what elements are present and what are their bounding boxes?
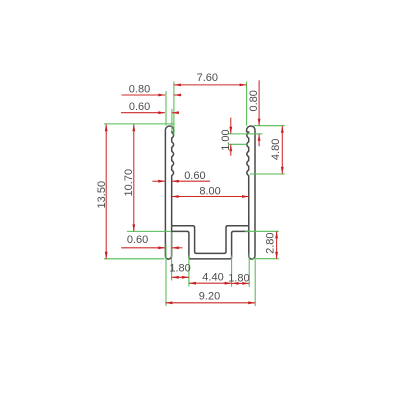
dimension 1.00 arrows: [229, 127, 232, 134]
dimension 7.60 line: [174, 84, 247, 86]
svg-text:1.80: 1.80: [228, 272, 249, 284]
svg-text:2.80: 2.80: [264, 232, 276, 253]
extension line left inner vertical bottom (1.80L left): [171, 232, 173, 281]
svg-text:0.60: 0.60: [127, 234, 148, 246]
dimension 13.50 arrows: [105, 124, 108, 131]
dimension 1.80 left line: [172, 276, 189, 278]
dimension 1.80 right arrows: [232, 282, 239, 285]
dimension 10.70 line: [133, 124, 135, 231]
svg-text:1.00: 1.00: [220, 129, 232, 150]
svg-text:4.80: 4.80: [270, 139, 282, 160]
dimension 1.80 left arrows: [172, 276, 179, 279]
extension line bottom right horizontal (2.80 bottom): [251, 258, 278, 260]
dimension 0.60 top-left line: [121, 112, 165, 114]
svg-text:0.60: 0.60: [184, 170, 205, 182]
extension line shelf right horizontal (2.80 top): [245, 230, 279, 232]
extension line rib left vertical (1.80L right / 4.40 left): [188, 256, 190, 287]
dimension 1.00 line: [230, 118, 232, 134]
svg-text:0.80: 0.80: [248, 90, 260, 111]
extension line left outer face vertical (0.80/0.60 top dims): [165, 91, 167, 126]
svg-text:13.50: 13.50: [96, 181, 108, 209]
dimension 0.80 top-left arrows: [158, 94, 165, 97]
dimension 0.60 middle line: [152, 180, 165, 182]
dimension 10.70 arrows: [132, 124, 135, 131]
profile right wall: [247, 126, 255, 259]
dimension 2.80 line: [276, 231, 278, 258]
extension line shelf left horizontal (10.70 bottom): [127, 230, 171, 232]
extension line serration start horizontal (0.80R bottom / 1.00 top): [228, 133, 263, 135]
dimension 1.80 right line: [232, 282, 250, 284]
dimension 8.00 line: [172, 196, 249, 198]
profile underside with centre rib: [172, 231, 249, 259]
svg-text:8.00: 8.00: [199, 186, 220, 198]
extension line right outer vertical bottom (9.20 right): [254, 260, 256, 307]
dimension 0.60 bottom-left arrows: [158, 246, 165, 249]
extension line right serration tip vertical (7.60 right): [246, 82, 248, 126]
dimension 0.80 right arrows: [258, 119, 261, 126]
profile channel floor (inner surface): [172, 226, 249, 254]
svg-text:10.70: 10.70: [123, 169, 135, 197]
svg-text:0.80: 0.80: [129, 84, 150, 96]
extension line left outer vertical bottom (9.20 left): [165, 244, 167, 306]
dimension 7.60 arrows: [174, 84, 181, 87]
dimension 9.20 arrows: [165, 301, 172, 304]
extension line top-left corner (13.50 / 10.70 top): [104, 123, 174, 125]
dimension 0.60 bottom-left line: [121, 247, 165, 249]
dimension 0.80 top-left line: [122, 94, 166, 96]
dimension 2.80 arrows: [275, 231, 278, 238]
profile left wall: [165, 126, 173, 259]
dimension 8.00 arrows: [172, 195, 179, 198]
svg-text:1.80: 1.80: [169, 263, 190, 275]
extension line rib right vertical (4.40 right / 1.80R left): [231, 256, 233, 287]
extension line left 0.60 face vertical: [171, 109, 173, 134]
dimension 0.80 right vertical line: [258, 80, 260, 125]
dimension 0.60 middle arrows: [158, 180, 165, 183]
extension line profile top right horizontal (0.80R / 4.80 top): [253, 125, 284, 127]
dimension 9.20 line: [165, 302, 255, 304]
dimension 4.80 arrows: [281, 126, 284, 133]
svg-text:0.60: 0.60: [129, 101, 150, 113]
extension line serration end horizontal (4.80 bottom): [250, 173, 285, 175]
dimension 0.60 top-left arrows: [158, 111, 165, 114]
extension line left 0.80 serration tip vertical (7.60 left): [173, 82, 175, 136]
extension line right inner vertical bottom (1.80R right): [248, 253, 250, 287]
dimension 13.50 line: [105, 124, 107, 259]
svg-text:7.60: 7.60: [197, 72, 218, 84]
dimension 4.40 line: [189, 282, 232, 284]
svg-text:9.20: 9.20: [199, 291, 220, 303]
extension line bottom left horizontal (13.50 bottom): [104, 258, 165, 260]
dimension 4.80 line: [281, 126, 283, 174]
svg-text:4.40: 4.40: [202, 272, 223, 284]
extension line serration pitch horizontal (1.00 bottom): [228, 143, 247, 145]
dimension 4.40 arrows: [189, 282, 196, 285]
